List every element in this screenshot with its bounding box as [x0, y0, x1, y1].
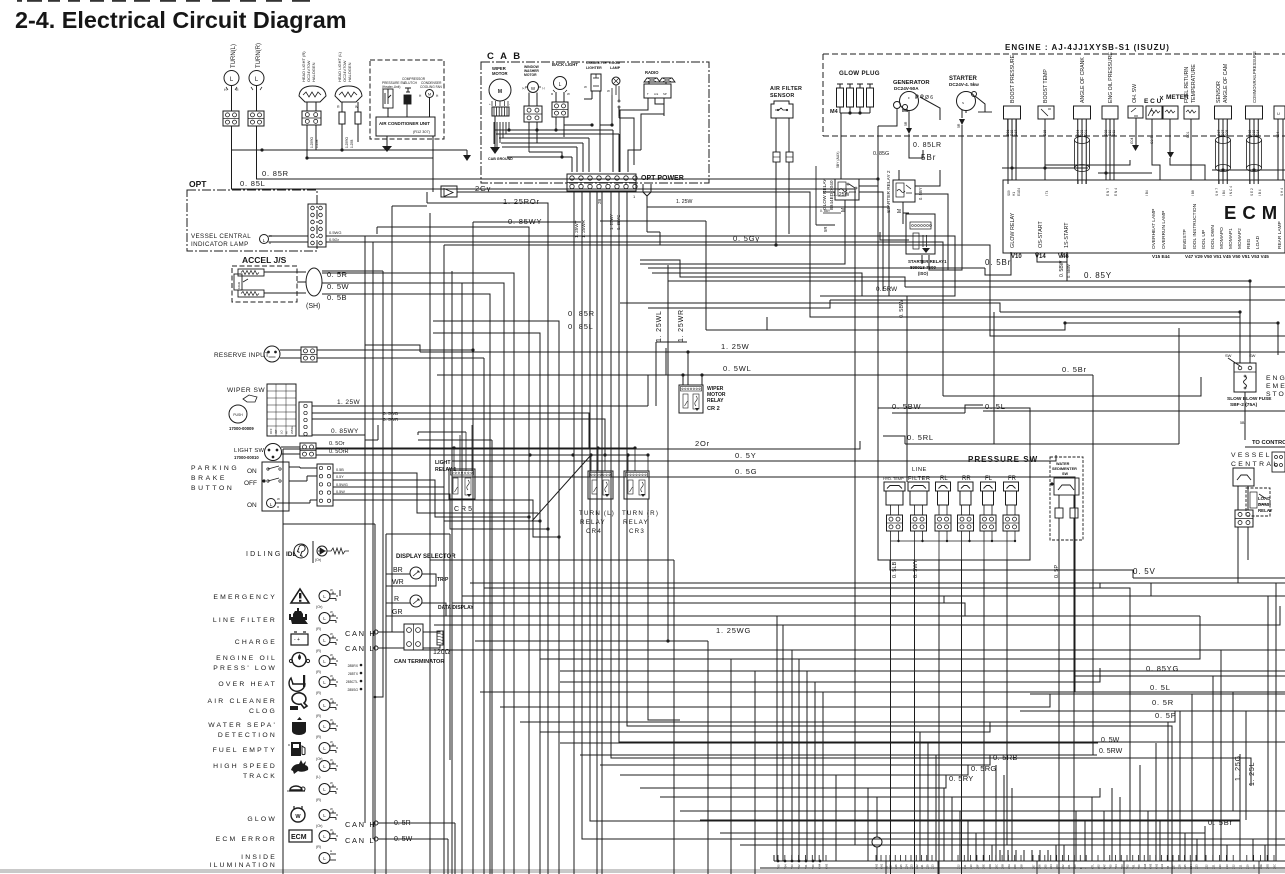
svg-text:TURN (R): TURN (R) [622, 510, 659, 517]
svg-text:ECM: ECM [291, 834, 307, 841]
water sep indicator [319, 721, 330, 732]
svg-text:1. 25W: 1. 25W [337, 399, 360, 406]
svg-text:0. 5WY: 0. 5WY [913, 559, 919, 578]
svg-text:ENGINE OIL: ENGINE OIL [216, 655, 277, 662]
relay top feeds CR4 CR3 [590, 455, 592, 471]
svg-text:M4: M4 [830, 109, 839, 115]
parking brake connector [317, 464, 333, 506]
svg-text:5R: 5R [823, 227, 828, 232]
svg-text:X0E: X0E [1259, 864, 1263, 869]
svg-text:X20: X20 [1218, 864, 1222, 869]
svg-text:(ISO): (ISO) [918, 271, 929, 276]
svg-text:W: W [567, 92, 570, 96]
svg-text:S: S [962, 101, 964, 105]
svg-text:D01: D01 [1084, 130, 1088, 136]
vertical 492 [491, 440, 493, 874]
svg-text:1. 25W: 1. 25W [833, 192, 850, 198]
relay CR5 feeds [453, 448, 455, 471]
svg-text:LAMP: LAMP [610, 66, 621, 70]
svg-text:GLOW RELAY: GLOW RELAY [1010, 212, 1016, 248]
wire CR2 pins [682, 375, 684, 385]
svg-text:CAN H: CAN H [345, 629, 376, 638]
pressure switch line filter [908, 482, 929, 491]
wire 0.85L run [231, 189, 1285, 845]
svg-text:0. 85R: 0. 85R [568, 309, 595, 318]
svg-text:0. 5BY: 0. 5BY [820, 209, 831, 213]
svg-text:(R): (R) [316, 670, 321, 674]
svg-text:X11: X11 [1239, 864, 1243, 869]
wire 0.5L run right [983, 410, 1285, 412]
svg-text:GLOW: GLOW [247, 816, 277, 823]
svg-text:COMMONRAILPRESSURE: COMMONRAILPRESSURE [1252, 51, 1257, 103]
svg-text:W: W [330, 781, 333, 785]
svg-text:0.5WG: 0.5WG [329, 230, 341, 235]
svg-text:RESERVE INPUT: RESERVE INPUT [214, 352, 269, 359]
glow indicator [319, 810, 330, 821]
svg-text:OVERRUN LAMP: OVERRUN LAMP [1161, 211, 1167, 249]
light relay CR5 [449, 469, 475, 499]
svg-text:0. 5P: 0. 5P [1155, 711, 1177, 720]
wire turn L down [231, 86, 233, 112]
svg-text:ACCEL J/S: ACCEL J/S [242, 255, 287, 265]
slow speed icon turtle [290, 786, 302, 790]
svg-text:Y02: Y02 [797, 864, 801, 869]
svg-text:RADIO: RADIO [645, 70, 659, 75]
svg-text:X00: X00 [1073, 864, 1077, 869]
svg-text:Y01: Y01 [804, 864, 808, 869]
radio wires [647, 98, 649, 110]
svg-text:CH1: CH1 [880, 863, 884, 869]
svg-text:EMERGENCY: EMERGENCY [213, 594, 277, 601]
generator wires [896, 108, 898, 118]
svg-text:10kΩ: 10kΩ [237, 281, 241, 289]
svg-text:ENGIN: ENGIN [1266, 375, 1285, 382]
svg-text:+: + [489, 102, 491, 106]
svg-text:M: M [498, 89, 502, 95]
svg-text:CR4: CR4 [586, 528, 602, 535]
wire cab drop 7 [619, 191, 1285, 742]
svg-text:X24: X24 [904, 864, 908, 869]
svg-text:DC24V-50A: DC24V-50A [894, 86, 919, 91]
svg-text:X26: X26 [894, 864, 898, 869]
svg-text:CLOG: CLOG [249, 708, 277, 715]
svg-text:CH4: CH4 [818, 863, 822, 869]
svg-text:BACK LIGHT: BACK LIGHT [552, 62, 578, 67]
svg-text:0. 5Or: 0. 5Or [329, 441, 345, 447]
svg-text:(L): (L) [316, 775, 320, 779]
svg-text:1.25B: 1.25B [315, 140, 319, 148]
svg-text:285SG: 285SG [347, 688, 358, 692]
wire 0.5Gy run [647, 231, 660, 233]
connector window washer [524, 106, 542, 122]
svg-text:AIR CONDITIONER UNIT: AIR CONDITIONER UNIT [379, 121, 430, 126]
bottom mesh horizontals [470, 582, 1285, 584]
wiper motor relay CR2 [679, 385, 703, 413]
connector back light [552, 102, 568, 117]
svg-text:ECM: ECM [1224, 202, 1283, 223]
svg-text:WASH: WASH [290, 426, 294, 434]
wire 0.5RW line [820, 281, 955, 296]
ECM top jog wires [1002, 167, 1088, 169]
svg-text:0.5B: 0.5B [336, 468, 344, 472]
wires reserve right [317, 349, 473, 351]
svg-text:X06: X06 [1037, 864, 1041, 869]
svg-text:AIR FILTER: AIR FILTER [770, 86, 802, 92]
accel internal wires [264, 271, 306, 273]
wires CR5 [471, 425, 473, 471]
svg-text:1. 25L: 1. 25L [1249, 762, 1256, 786]
svg-text:R: R [394, 596, 399, 603]
svg-text:G01: G01 [1186, 131, 1190, 138]
svg-text:TO CONTROLL: TO CONTROLL [1252, 440, 1285, 446]
vertical bus 383 [376, 271, 383, 697]
diagonal CR4 feed [532, 455, 591, 521]
svg-text:1. 25ROr: 1. 25ROr [503, 197, 540, 206]
svg-text:DISPLAY SELECTOR: DISPLAY SELECTOR [396, 554, 456, 560]
svg-text:SBF-2 (75A): SBF-2 (75A) [1230, 402, 1258, 408]
svg-text:MOMAP1: MOMAP1 [1228, 228, 1234, 249]
svg-text:X26: X26 [1177, 864, 1181, 869]
staircase y270 [652, 273, 862, 296]
svg-text:G0 T: G0 T [1150, 137, 1154, 144]
wire 1.25ROr run [427, 203, 548, 874]
wires from press sw top [877, 126, 879, 179]
svg-text:CH3: CH3 [1149, 863, 1153, 869]
svg-text:CH2: CH2 [875, 863, 879, 869]
svg-text:M: M [428, 92, 431, 97]
svg-text:Y02: Y02 [1126, 864, 1130, 869]
wire y287 right [905, 286, 1285, 288]
svg-text:C A B: C A B [487, 51, 522, 62]
svg-text:CIGARETTE: CIGARETTE [586, 61, 607, 65]
svg-text:CAN H: CAN H [345, 820, 376, 829]
svg-text:PUSH: PUSH [233, 413, 243, 417]
glow icon [291, 808, 305, 822]
svg-text:0. 5Y: 0. 5Y [735, 451, 757, 460]
svg-text:CR5: CR5 [454, 506, 474, 513]
svg-text:ROOM: ROOM [609, 61, 620, 65]
svg-text:L: L [559, 82, 562, 88]
svg-text:Y04: Y04 [1114, 864, 1118, 869]
svg-text:X12: X12 [957, 864, 961, 869]
vertical 907 into pressure sw [906, 296, 908, 482]
svg-text:H: H [330, 849, 332, 853]
svg-text:IDOL INSTRUCTION: IDOL INSTRUCTION [1192, 203, 1198, 249]
wire staircase 706 [705, 221, 707, 330]
svg-text:WIPER SW: WIPER SW [227, 387, 265, 394]
wire 1.25W cab run [647, 207, 889, 296]
svg-text:W: W [330, 610, 333, 614]
svg-text:X08: X08 [1020, 864, 1024, 869]
svg-text:0. 85WY: 0. 85WY [331, 428, 359, 435]
bottom strip main line [774, 860, 1285, 862]
svg-text:ON: ON [247, 468, 257, 475]
starter relay 1 [906, 214, 935, 254]
svg-text:ENG OIL PRESSURE: ENG OIL PRESSURE [1108, 52, 1114, 103]
glow relay wires [840, 170, 842, 179]
svg-text:0.5Gr: 0.5Gr [329, 237, 340, 242]
svg-text:0. 85YG: 0. 85YG [1146, 664, 1179, 673]
svg-text:DAMP: DAMP [1258, 502, 1271, 507]
vessel drop [1237, 560, 1239, 583]
svg-text:X13: X13 [1225, 864, 1229, 869]
svg-text:X02: X02 [1061, 864, 1065, 869]
svg-text:OPT: OPT [189, 179, 207, 189]
wire AC right down [432, 136, 434, 192]
svg-text:DETECTION: DETECTION [218, 732, 277, 739]
svg-text:W: W [584, 85, 587, 89]
vertical 755 [754, 671, 756, 874]
svg-text:D14: D14 [1256, 130, 1260, 136]
svg-text:RELAY: RELAY [707, 398, 724, 404]
accel oval connector [306, 268, 322, 296]
svg-text:LOAD: LOAD [1255, 235, 1261, 249]
wire 0.5RL run [905, 443, 1179, 445]
svg-text:(SH): (SH) [306, 303, 320, 310]
svg-text:ILUMINATION: ILUMINATION [209, 862, 277, 869]
wire 0.5Y run [452, 455, 1056, 461]
svg-text:X0D: X0D [1266, 864, 1270, 869]
svg-text:E C U: E C U [1144, 98, 1162, 105]
wire 1.25W long [420, 351, 1285, 353]
svg-text:TEMPERATURE: TEMPERATURE [1191, 64, 1197, 103]
OPT POWER connector [567, 174, 636, 191]
svg-text:AIR CLEANER: AIR CLEANER [207, 698, 277, 705]
svg-text:W: W [330, 740, 333, 744]
V14 V46 drops [1037, 252, 1067, 262]
svg-text:1S-START: 1S-START [1064, 222, 1070, 248]
wire 0.85R run [256, 179, 878, 408]
svg-text:X0F: X0F [1252, 864, 1256, 869]
svg-text:(Or): (Or) [315, 558, 321, 562]
svg-text:TRIP: TRIP [437, 577, 449, 583]
svg-text:1.25RO: 1.25RO [345, 136, 349, 148]
svg-text:X23: X23 [1195, 864, 1199, 869]
svg-text:ANGLE OF CRANK: ANGLE OF CRANK [1080, 57, 1086, 103]
svg-text:PRESSURE SW: PRESSURE SW [968, 455, 1038, 464]
svg-text:0. 85LR: 0. 85LR [913, 142, 942, 149]
svg-text:X25: X25 [1183, 864, 1187, 869]
right mid connectors to bottom [1092, 570, 1094, 755]
connector reserve [301, 347, 317, 362]
wire 0.5BW label run [892, 412, 965, 414]
svg-text:1.25RO: 1.25RO [310, 136, 314, 148]
svg-text:LOAD: LOAD [1258, 496, 1270, 501]
svg-text:X22: X22 [1205, 864, 1209, 869]
display unit box [386, 533, 450, 535]
ECM box [1003, 180, 1285, 253]
emergency indicator [319, 591, 330, 602]
connector turn R [248, 111, 264, 126]
svg-text:1. 25G: 1. 25G [1235, 755, 1242, 781]
svg-text:OFF: OFF [244, 480, 257, 487]
svg-text:W: W [607, 89, 610, 93]
svg-text:LIGHT SW: LIGHT SW [234, 448, 265, 454]
svg-text:X22: X22 [915, 864, 919, 869]
svg-text:(R): (R) [316, 649, 321, 653]
slow speed indicator [319, 784, 330, 795]
vertical 430 [429, 213, 431, 874]
svg-text:Y03: Y03 [1120, 864, 1124, 869]
svg-text:OH. SW: OH. SW [1132, 84, 1138, 103]
0.5V wire [1133, 577, 1285, 579]
0.85Y drop left [667, 265, 669, 281]
svg-text:Y03: Y03 [790, 864, 794, 869]
svg-text:W: W [330, 758, 333, 762]
svg-text:W: W [330, 697, 333, 701]
wire 0.5WL run [437, 374, 1093, 376]
svg-text:17000-00009: 17000-00009 [229, 426, 254, 431]
1.25G vertical wire [1232, 692, 1234, 811]
svg-text:D05: D05 [1225, 130, 1229, 136]
light sw wires [316, 447, 635, 449]
svg-text:HIGH SPEED: HIGH SPEED [213, 763, 277, 770]
wire y312 right [1000, 311, 1240, 313]
svg-text:2B: 2B [597, 199, 602, 204]
accel resistor 2 [238, 290, 264, 297]
connector light sw [300, 443, 316, 458]
cab internal wiring [615, 85, 617, 95]
wire 1.25WR vertical [665, 348, 667, 375]
svg-text:W: W [277, 497, 280, 501]
svg-text:BRAKE: BRAKE [191, 475, 227, 482]
fuse below OPT POWER [643, 184, 651, 196]
svg-text:5R: 5R [957, 123, 961, 128]
wires vessel lamp [269, 235, 309, 237]
wire cab drop 5 [601, 191, 603, 874]
svg-text:Y05: Y05 [777, 864, 781, 869]
fuel indicator [319, 743, 330, 754]
svg-text:ENGINE : AJ-4JJ1XYSB-S1 (ISU: ENGINE : AJ-4JJ1XYSB-S1 (ISUZU) [1005, 43, 1170, 52]
svg-text:E N 4: E N 4 [1114, 188, 1118, 196]
svg-text:A02: A02 [1097, 864, 1101, 869]
svg-text:0. 5BW: 0. 5BW [1059, 260, 1065, 277]
svg-text:X21: X21 [1211, 864, 1215, 869]
svg-text:DATA DISPLAY: DATA DISPLAY [438, 605, 474, 611]
svg-text:W: W [330, 807, 333, 811]
svg-text:CAB GROUND: CAB GROUND [488, 157, 513, 161]
svg-text:GR: GR [392, 609, 403, 616]
vertical 731 [730, 659, 732, 874]
svg-text:CH4: CH4 [1143, 863, 1147, 869]
wires head light R [306, 102, 308, 111]
svg-text:(R): (R) [316, 714, 321, 718]
svg-text:285TX: 285TX [348, 672, 359, 676]
svg-text:COOLING FAN: COOLING FAN [420, 85, 442, 89]
svg-text:REAR LAMP: REAR LAMP [1277, 221, 1283, 249]
wire cab drop 2 [582, 191, 1285, 839]
svg-text:X0B: X0B [1001, 864, 1005, 869]
svg-text:SEDIMENTER: SEDIMENTER [1052, 467, 1077, 471]
svg-text:X13: X13 [931, 864, 935, 869]
wires head light L [341, 102, 343, 112]
svg-text:I B4: I B4 [1222, 190, 1226, 196]
glow plug bus to relay [840, 113, 842, 136]
svg-text:1.25B: 1.25B [350, 140, 354, 148]
sensor partial right edge [1274, 106, 1285, 119]
y650 long line [462, 649, 1285, 651]
svg-text:SENSOR: SENSOR [770, 93, 795, 99]
svg-text:S H 4: S H 4 [1280, 188, 1284, 196]
monitor bus verticals [312, 541, 314, 563]
vertical 444 [443, 245, 445, 874]
svg-text:MOMAPO: MOMAPO [1219, 227, 1225, 249]
page bottom shadow bar [0, 869, 1285, 873]
svg-text:5B: 5B [1240, 421, 1245, 425]
svg-text:ECM ERROR: ECM ERROR [216, 836, 277, 843]
svg-text:0. 85Y: 0. 85Y [1084, 271, 1112, 280]
svg-text:G04: G04 [1130, 137, 1134, 144]
wiper motor connector hatched [492, 107, 509, 116]
wire 2Gy run [457, 192, 1240, 317]
svg-text:S5: S5 [1166, 865, 1170, 869]
vessel lamp symbol [260, 235, 269, 244]
svg-text:CLUTCH: CLUTCH [404, 81, 418, 85]
relay feed rail dots [528, 453, 531, 456]
terminator resistor 120ohm [437, 631, 443, 645]
svg-text:DC24V-4. 5kw: DC24V-4. 5kw [949, 82, 979, 87]
svg-text:17000-00010: 17000-00010 [234, 455, 259, 460]
svg-text:X0E: X0E [982, 864, 986, 869]
svg-text:X04: X04 [1049, 864, 1053, 869]
svg-text:X27: X27 [1172, 864, 1176, 869]
wire turn R down [256, 86, 258, 112]
svg-text:(Heater-Unit): (Heater-Unit) [382, 85, 400, 89]
svg-text:CH3: CH3 [825, 863, 829, 869]
glow plug wire down [840, 113, 842, 170]
wire 0.85WY run [376, 227, 378, 234]
sensor bus lines [1007, 180, 1009, 184]
wire bus lamps [231, 149, 467, 151]
svg-text:X23: X23 [910, 864, 914, 869]
svg-text:S5: S5 [885, 865, 889, 869]
connector OPT 2x6 [308, 204, 326, 247]
svg-text:OS-START: OS-START [1038, 221, 1044, 248]
svg-text:0. 5RL: 0. 5RL [907, 433, 934, 442]
bottom mesh verticals [776, 616, 778, 861]
svg-text:IDLING: IDLING [246, 551, 283, 558]
vertical 473 [472, 222, 474, 874]
svg-text:X07: X07 [1032, 864, 1036, 869]
vertical 484 [483, 358, 485, 874]
svg-text:2-4. Electrical Circuit Diagra: 2-4. Electrical Circuit Diagram [15, 7, 347, 33]
svg-text:W: W [330, 632, 333, 636]
svg-text:W: W [330, 718, 333, 722]
svg-text:(Or): (Or) [316, 605, 322, 609]
load damp relay [1246, 488, 1270, 516]
pressure bottom drops [890, 580, 892, 874]
svg-text:INSIDE: INSIDE [241, 854, 277, 861]
bottom verticals right group [919, 732, 921, 861]
svg-text:S E 2: S E 2 [1250, 188, 1254, 196]
wire 1.25WL vertical [655, 342, 657, 406]
svg-text:V46: V46 [1058, 254, 1069, 260]
air cleaner icon [292, 693, 307, 708]
svg-text:INDICATOR LAMP: INDICATOR LAMP [191, 241, 249, 248]
pressure switch FR [1004, 482, 1019, 491]
wire cab drop 6 [611, 191, 1251, 786]
svg-text:LINE FILTER: LINE FILTER [213, 617, 277, 624]
svg-text:X0F: X0F [975, 864, 979, 869]
svg-text:X05: X05 [1043, 864, 1047, 869]
svg-text:CAN L: CAN L [345, 644, 375, 653]
svg-text:CAN TERMINATOR: CAN TERMINATOR [394, 659, 444, 665]
air conditioner unit inner box [376, 117, 435, 136]
wiper wires right [312, 405, 648, 407]
wires sensors to ECM [1007, 119, 1009, 180]
svg-text:SW: SW [1062, 472, 1069, 476]
svg-text:V47 V29 V50 V51 V45 V50 V51 V5: V47 V29 V50 V51 V45 V50 V51 V53 V45 [1185, 254, 1269, 259]
